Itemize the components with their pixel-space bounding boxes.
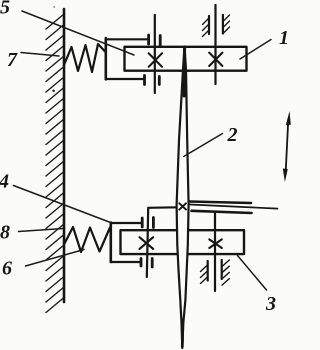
yoke 5 (upper bracket) [106, 38, 147, 79]
svg-text:1: 1 [279, 27, 289, 49]
rocker arm right (double line) [190, 202, 252, 204]
shaft upper-left [154, 15, 156, 93]
ground symbol top-right [203, 15, 230, 37]
motion arrow [283, 111, 291, 182]
bearing cross upper-right [209, 53, 222, 66]
shaft upper-right [214, 5, 216, 84]
spindle solid upper tip [183, 47, 187, 96]
scan speck [52, 90, 55, 93]
leader 6 [26, 250, 85, 267]
bearing bar upper-left bottom [143, 76, 146, 85]
bearing tick lower-right top [152, 218, 155, 228]
leader 4 [14, 186, 111, 223]
bearing cross lower-right [209, 239, 222, 248]
spring 6 (lower) [65, 227, 111, 252]
bearing tick upper-right bottom [158, 77, 161, 85]
svg-text:7: 7 [7, 49, 18, 71]
leader 2 [184, 134, 223, 157]
leader 3 [238, 256, 267, 291]
spring 7 (upper) [64, 44, 106, 72]
pivot cross on spindle [179, 203, 186, 209]
patch: box bottom edge across spindle [180, 69, 189, 71]
svg-text:6: 6 [2, 258, 12, 280]
shaft lower-right [214, 214, 216, 292]
svg-text:2: 2 [227, 124, 238, 146]
svg-text:4: 4 [0, 171, 9, 193]
wall hatching [46, 14, 64, 313]
svg-text:3: 3 [265, 293, 276, 315]
leader 8 [19, 229, 64, 232]
link arm + shaft lower-left [147, 207, 177, 277]
wall [63, 9, 66, 302]
bearing bar lower-left bottom [140, 259, 143, 267]
svg-text:5: 5 [0, 0, 10, 19]
bearing tick lower-right bottom [151, 259, 154, 268]
leader 1 [240, 40, 271, 60]
bearing cross upper-left [149, 53, 162, 67]
leader 5 [22, 11, 134, 55]
spindle solid lower tip [181, 320, 184, 347]
housing 3 (lower box) [121, 230, 245, 254]
bearing bar lower-left top [141, 218, 144, 227]
long rod right [190, 205, 278, 209]
ground symbol bottom-right [201, 260, 230, 285]
bearing bar upper-left top [147, 35, 150, 44]
svg-text:8: 8 [0, 222, 10, 244]
spindle 2 (tapered lever) [177, 47, 189, 349]
scan speck [53, 6, 55, 8]
bearing cross lower-left [140, 237, 154, 249]
bearing tick upper-right top [159, 36, 162, 46]
housing 1 (upper box) [125, 47, 247, 71]
yoke 4 (lower bracket) [111, 223, 141, 263]
leader 7 [21, 53, 59, 57]
